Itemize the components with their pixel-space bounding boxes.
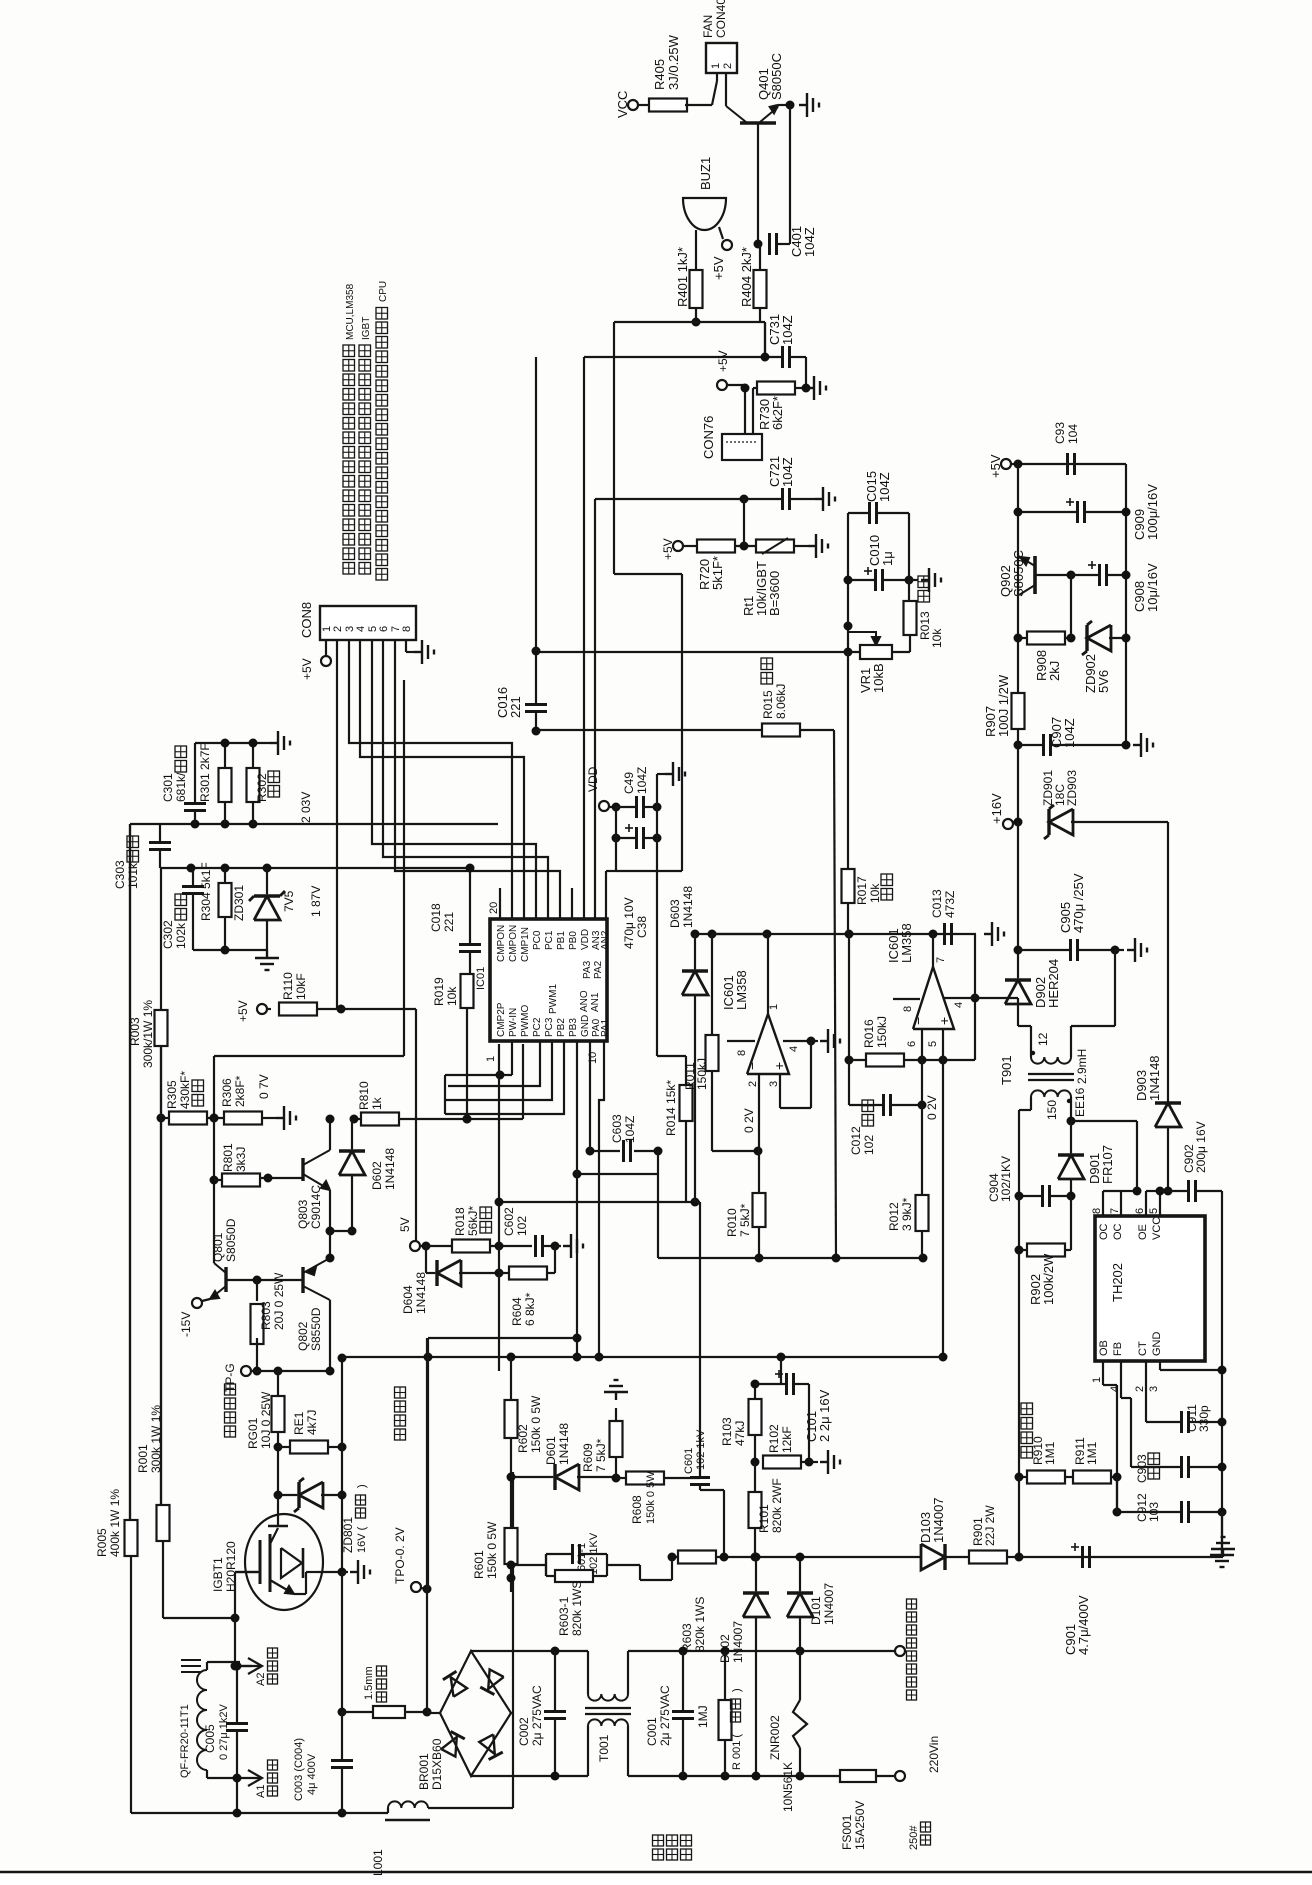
thermistor Rt1 xyxy=(756,540,794,553)
resistor R720 xyxy=(697,540,735,553)
resistor R910 xyxy=(1027,1471,1065,1484)
CON8 pin3 wire xyxy=(349,640,512,919)
capacitor C901 xyxy=(1081,1546,1084,1568)
wire C905 right to winding xyxy=(1114,950,1116,1026)
inductor L001 xyxy=(388,1801,428,1808)
svg-text:100k/2W: 100k/2W xyxy=(1041,1253,1056,1305)
wire DC rail y1557 xyxy=(672,1556,921,1558)
note CJK close to supply xyxy=(225,1426,236,1437)
resistor R003 xyxy=(155,1010,168,1046)
svg-text:PA2: PA2 xyxy=(593,960,604,979)
svg-text:BUZ1: BUZ1 xyxy=(698,157,713,190)
terminal AC top xyxy=(895,1646,905,1656)
svg-text:ZD801: ZD801 xyxy=(341,1517,355,1553)
capacitor C101 xyxy=(785,1373,788,1395)
wire R720 to Rt1 xyxy=(735,545,756,547)
wire y1151 row C603 xyxy=(590,1150,620,1152)
svg-text:7 5kJ*: 7 5kJ* xyxy=(738,1203,752,1237)
wire x848 drop xyxy=(847,513,849,652)
svg-text:1N4148: 1N4148 xyxy=(681,886,695,928)
wire C016 top feed xyxy=(535,357,537,651)
svg-text:D102: D102 xyxy=(718,1634,732,1663)
svg-text:RG01: RG01 xyxy=(246,1417,260,1449)
svg-text:PC1: PC1 xyxy=(544,930,555,950)
svg-text:+: + xyxy=(936,1017,952,1025)
capacitor C912 xyxy=(1180,1501,1183,1523)
note CJK compatible terminal xyxy=(907,1690,917,1700)
wire D603 column x695 to C601 col xyxy=(695,1201,700,1203)
wire rail y824 (2.03V) xyxy=(130,823,498,825)
svg-text:R602: R602 xyxy=(516,1424,530,1453)
ground at C49 xyxy=(656,774,658,807)
svg-text:Q802: Q802 xyxy=(296,1321,310,1351)
svg-text:T901: T901 xyxy=(999,1055,1014,1085)
svg-text:150kJ: 150kJ xyxy=(875,1016,889,1048)
wire y1258 row xyxy=(658,1257,923,1259)
svg-text:5: 5 xyxy=(927,1041,939,1047)
svg-text:R603: R603 xyxy=(680,1623,694,1652)
wire C005 column xyxy=(236,1666,238,1723)
resistor R301 xyxy=(219,768,232,802)
ground DC rail right xyxy=(1211,1537,1235,1557)
TH202 pin1 OB xyxy=(1102,1361,1104,1385)
wire AC rail top y1651 xyxy=(471,1650,588,1652)
svg-text:1MJ: 1MJ xyxy=(696,1705,710,1728)
svg-text:-15V: -15V xyxy=(179,1312,193,1337)
svg-text:200μ 16V: 200μ 16V xyxy=(1194,1121,1208,1173)
wire Q902 base to C908 node xyxy=(1035,574,1071,576)
svg-text:C013: C013 xyxy=(930,889,944,918)
wire pin1 row y1075 xyxy=(445,1074,512,1076)
svg-text:R015: R015 xyxy=(761,690,775,719)
svg-text:100J 1/2W: 100J 1/2W xyxy=(996,674,1011,737)
note CJK parallel routing xyxy=(395,1429,406,1440)
capacitor C907 xyxy=(1042,734,1045,756)
wire coil top to A2 xyxy=(206,1662,208,1670)
resistor R305 xyxy=(169,1112,207,1125)
wire opamp1 pin2 column xyxy=(758,1074,760,1193)
capacitor C603 xyxy=(622,1140,625,1162)
terminal 5V at R018 xyxy=(410,1241,420,1251)
svg-text:1N4148: 1N4148 xyxy=(414,1272,428,1314)
svg-text:1: 1 xyxy=(485,1056,497,1062)
wire C016 column xyxy=(535,652,537,704)
ground at R306 xyxy=(276,1106,296,1130)
resistor R405 xyxy=(649,99,687,112)
capacitor C38 470u xyxy=(635,827,638,849)
svg-text:FB: FB xyxy=(1112,1342,1124,1356)
svg-text:7: 7 xyxy=(935,957,947,963)
svg-text:R405: R405 xyxy=(652,59,667,90)
svg-text:2kJ: 2kJ xyxy=(1047,661,1062,681)
fuse FS001 xyxy=(840,1770,876,1782)
bridge diode 1 xyxy=(451,1677,467,1697)
wire column x499 (pin1) xyxy=(498,1044,500,1371)
wire C015 loop xyxy=(848,512,869,514)
svg-text:7V5: 7V5 xyxy=(282,890,296,912)
wire node y322 xyxy=(614,321,765,323)
ground at C905 xyxy=(1115,949,1124,951)
wire R404 to C731 node xyxy=(764,322,766,357)
wire Q803 emitter to D602 anode xyxy=(330,1230,352,1232)
wire x834 long drop xyxy=(834,730,836,1258)
wire ZD901 to right rail xyxy=(1071,821,1168,823)
wire PA1 column xyxy=(599,1041,604,1357)
svg-text:R012: R012 xyxy=(887,1202,901,1231)
wire TP-G rail xyxy=(257,1370,330,1372)
svg-text:C301: C301 xyxy=(161,773,175,802)
resistor R019 xyxy=(461,974,474,1008)
svg-text:CON8: CON8 xyxy=(299,602,314,638)
wire secondary left drop xyxy=(1030,1097,1032,1110)
svg-text:R810: R810 xyxy=(357,1081,371,1110)
power +5V at buzzer xyxy=(719,227,723,239)
svg-text:C002: C002 xyxy=(517,1717,531,1746)
wire x781 to C101 xyxy=(780,1357,782,1384)
svg-text:R014 15k*: R014 15k* xyxy=(664,1080,678,1136)
wire node to TH202 pin7 xyxy=(1071,1120,1137,1122)
wire collector node to coil A2 xyxy=(235,1665,252,1667)
svg-text:D602: D602 xyxy=(370,1161,384,1190)
resistor 1MJ xyxy=(719,1700,732,1740)
svg-text:R401 1kJ*: R401 1kJ* xyxy=(675,247,690,307)
wire opamp1 pin8 stub xyxy=(727,1040,755,1042)
svg-text:+5V: +5V xyxy=(716,350,730,372)
ground at R730 xyxy=(806,376,826,400)
svg-text:470μ 10V: 470μ 10V xyxy=(622,897,636,949)
resistor R014 xyxy=(680,1085,693,1121)
TH202 pin4 FB xyxy=(1120,1361,1122,1398)
svg-text:1: 1 xyxy=(768,1004,780,1010)
svg-text:GND: GND xyxy=(1151,1332,1163,1357)
svg-text:10J 0 25W: 10J 0 25W xyxy=(259,1391,273,1449)
svg-text:R803: R803 xyxy=(259,1301,273,1330)
svg-text:5V6: 5V6 xyxy=(1096,670,1111,693)
wire R011 bottom to pin2 column xyxy=(712,1150,758,1152)
svg-text:10kB: 10kB xyxy=(871,663,886,693)
svg-text:R304 5k1F: R304 5k1F xyxy=(199,862,213,921)
ground at C010 xyxy=(909,579,918,581)
svg-text:+5V: +5V xyxy=(711,256,726,280)
svg-text:1N4007: 1N4007 xyxy=(931,1497,946,1543)
wire R911 to pin1 node xyxy=(1116,1477,1118,1512)
svg-text:OE: OE xyxy=(1137,1224,1149,1240)
svg-text:20: 20 xyxy=(488,902,500,914)
wire x909 drop xyxy=(908,513,910,601)
wire VCC to R405 xyxy=(638,104,651,106)
svg-text:250#: 250# xyxy=(908,1825,920,1850)
wire opamp1 pin3 xyxy=(779,1074,781,1108)
svg-text:−: − xyxy=(744,1062,760,1070)
svg-text:3J/0.25W: 3J/0.25W xyxy=(666,34,681,90)
bridge diode 4 xyxy=(479,1734,495,1754)
wire C010 loop xyxy=(848,579,875,581)
svg-text:20J 0 25W: 20J 0 25W xyxy=(272,1272,286,1330)
op-amp IC601b xyxy=(913,967,954,1029)
svg-text:R018: R018 xyxy=(453,1207,467,1236)
resistor R110 xyxy=(279,1003,317,1016)
svg-text:1N4148: 1N4148 xyxy=(557,1423,571,1465)
svg-text:56kJ*: 56kJ* xyxy=(466,1206,480,1236)
resistor R013 xyxy=(904,601,917,635)
wire bridge left arm xyxy=(427,1712,440,1714)
svg-text:102: 102 xyxy=(515,1216,529,1236)
resistor R017 xyxy=(842,869,855,903)
svg-text:PA1: PA1 xyxy=(600,1018,611,1037)
svg-text:VDD: VDD xyxy=(580,929,591,950)
svg-text:TPO-0. 2V: TPO-0. 2V xyxy=(393,1527,407,1584)
IC IC01 MCU xyxy=(490,919,607,1041)
svg-text:102 1kV: 102 1kV xyxy=(695,1429,707,1470)
svg-text:6: 6 xyxy=(906,1041,918,1047)
wire x1019 down to DC rail xyxy=(1018,1477,1020,1557)
resistor R010 xyxy=(753,1193,766,1227)
wire PB3 column xyxy=(576,1041,578,1357)
capacitor C301 xyxy=(184,802,206,805)
wire left drop x614 xyxy=(613,322,615,574)
svg-text:CMPON: CMPON xyxy=(508,925,519,962)
capacitor C49 xyxy=(635,796,638,818)
svg-text:C602: C602 xyxy=(502,1207,516,1236)
svg-text:R608: R608 xyxy=(630,1495,644,1524)
wire y1338 row xyxy=(428,1337,576,1339)
svg-text:+5V: +5V xyxy=(236,1000,250,1022)
svg-text:R306: R306 xyxy=(220,1078,234,1107)
svg-text:R016: R016 xyxy=(862,1019,876,1048)
wire x428 column xyxy=(427,1338,429,1589)
svg-text:PWMO: PWMO xyxy=(520,1005,531,1037)
terminal A2 arrow xyxy=(248,1658,262,1674)
wire DC rail to C901 xyxy=(1019,1556,1223,1558)
svg-text:R305: R305 xyxy=(165,1080,179,1109)
wire R405 to FAN connector xyxy=(685,104,712,106)
resistor R603 xyxy=(678,1551,716,1564)
wire bridge bottom to rail xyxy=(471,1775,555,1777)
svg-text:221: 221 xyxy=(508,696,523,718)
wire R013 to VR1 xyxy=(909,635,911,652)
wire Q802 base link xyxy=(256,1280,258,1301)
wire AC rail bottom y1776 xyxy=(555,1775,588,1777)
terminal TPO-0.2V xyxy=(411,1582,421,1592)
svg-text:PW-IN: PW-IN xyxy=(508,1008,519,1037)
svg-text:4: 4 xyxy=(355,626,367,632)
svg-text:): ) xyxy=(356,1484,368,1488)
svg-text:R801: R801 xyxy=(221,1143,235,1172)
svg-text:820k 1WS: 820k 1WS xyxy=(693,1597,707,1652)
wire R907 bottom xyxy=(1017,729,1019,822)
svg-text:+: + xyxy=(771,1062,787,1070)
capacitor C908 xyxy=(1098,564,1101,586)
svg-text:8: 8 xyxy=(401,626,413,632)
wire R014 bottom xyxy=(685,1121,687,1202)
resistor R801 xyxy=(222,1174,260,1187)
note CJK per power xyxy=(653,1849,664,1860)
transformer T001 core xyxy=(585,1707,631,1709)
capacitor C001 xyxy=(672,1710,694,1713)
diode D102 xyxy=(743,1593,769,1617)
wire opamp2 pin5 xyxy=(942,1029,944,1060)
svg-text:T001: T001 xyxy=(597,1734,611,1762)
svg-text:CMPON: CMPON xyxy=(496,925,507,962)
wire opamp1 pin4 ground xyxy=(783,1040,811,1042)
wire coil bottom to A1 xyxy=(206,1770,208,1778)
wire CON76 pins up xyxy=(744,385,746,434)
svg-text:820k 1WS: 820k 1WS xyxy=(570,1581,584,1636)
svg-text:6: 6 xyxy=(1134,1208,1146,1214)
svg-text:470μ /25V: 470μ /25V xyxy=(1071,873,1086,933)
resistor R011 xyxy=(706,1035,719,1071)
svg-text:C003 (C004): C003 (C004) xyxy=(293,1738,305,1801)
svg-text:7: 7 xyxy=(1109,1208,1121,1214)
svg-text:R101: R101 xyxy=(757,1504,771,1533)
svg-text:2: 2 xyxy=(722,63,734,69)
resistor R609 xyxy=(610,1421,623,1457)
wire RG01 to gate xyxy=(277,1432,279,1495)
wire pin5 column x943 down to rail xyxy=(942,1060,944,1357)
diode D103 xyxy=(921,1544,945,1570)
svg-text:PC2: PC2 xyxy=(532,1017,543,1037)
resistor R810 xyxy=(361,1113,399,1126)
svg-text:1.5mm: 1.5mm xyxy=(363,1666,375,1700)
shunt 1.5mm resistor xyxy=(373,1706,405,1718)
svg-text:OC: OC xyxy=(1112,1223,1124,1240)
svg-text:CMP2P: CMP2P xyxy=(496,1002,507,1037)
resistor R102 xyxy=(763,1456,801,1469)
svg-text:8.06kJ: 8.06kJ xyxy=(774,684,788,719)
ground at C907 rail xyxy=(1133,733,1153,757)
svg-text:3: 3 xyxy=(1148,1386,1160,1392)
capacitor C015 xyxy=(868,502,871,524)
svg-text:+16V: +16V xyxy=(989,793,1004,824)
svg-text:2 03V: 2 03V xyxy=(299,792,313,823)
svg-text:C302: C302 xyxy=(161,920,175,949)
wire +5V left rail x1018 xyxy=(1017,464,1019,594)
svg-text:1μ: 1μ xyxy=(880,551,895,566)
resistor R302 xyxy=(247,768,260,802)
zener ZD801 xyxy=(299,1482,323,1508)
svg-text:1: 1 xyxy=(710,63,722,69)
wire C601-1/R603-1 loop xyxy=(546,1553,572,1555)
svg-text:C012: C012 xyxy=(849,1126,863,1155)
CON8 pin2 wire to R110 row xyxy=(336,640,338,1009)
resistor R401 xyxy=(690,270,703,308)
svg-text:300k 1W 1%: 300k 1W 1% xyxy=(149,1405,163,1473)
svg-text:FR107: FR107 xyxy=(1100,1145,1115,1184)
ground at C721 xyxy=(815,487,835,511)
wire rail y824 left drop x130 xyxy=(129,824,131,1521)
svg-text:1N4148: 1N4148 xyxy=(383,1148,397,1190)
svg-text:VDD: VDD xyxy=(586,766,600,792)
svg-text:2 2μ 16V: 2 2μ 16V xyxy=(817,1389,832,1442)
TH202 pin6 xyxy=(1145,1191,1147,1216)
capacitor C911 xyxy=(1180,1411,1183,1433)
capacitor C003 C004 xyxy=(331,1759,353,1762)
svg-text:150k 0 5W: 150k 0 5W xyxy=(529,1395,543,1453)
svg-text:R302: R302 xyxy=(255,773,269,802)
capacitor C013 xyxy=(943,923,946,945)
svg-text:VCC: VCC xyxy=(1151,1217,1163,1240)
svg-text:PWM1: PWM1 xyxy=(548,984,559,1014)
potentiometer VR1 xyxy=(860,645,892,659)
svg-text:+5V: +5V xyxy=(300,658,314,680)
svg-text:RE1: RE1 xyxy=(292,1411,306,1435)
wire bottom rail left xyxy=(131,1812,388,1814)
wire rail y950 with ground xyxy=(193,949,267,951)
svg-text:100μ/16V: 100μ/16V xyxy=(1145,484,1160,540)
wire bus drop x595 xyxy=(594,499,596,919)
svg-text:IGBT: IGBT xyxy=(361,317,372,340)
svg-text:473Z: 473Z xyxy=(943,891,957,918)
svg-text:7 5kJ*: 7 5kJ* xyxy=(594,1438,608,1472)
resistor RG01 xyxy=(272,1396,285,1432)
wire Q801 collector to R305 node column xyxy=(213,1118,215,1263)
resistor R604 xyxy=(509,1267,547,1280)
wire opamp1 output xyxy=(767,934,769,1014)
bridge diode 2 xyxy=(488,1669,504,1689)
svg-text:0 27μ 1k2V: 0 27μ 1k2V xyxy=(218,1703,230,1760)
TH202 pin3 GND xyxy=(1159,1361,1161,1370)
wire R015 row y730 xyxy=(536,729,764,731)
svg-text:D604: D604 xyxy=(401,1285,415,1314)
svg-text:R404 2kJ*: R404 2kJ* xyxy=(739,247,754,307)
wire x445 nest xyxy=(444,1075,446,1114)
power VDD terminal xyxy=(599,801,609,811)
svg-text:10μ/16V: 10μ/16V xyxy=(1145,563,1160,612)
wire opamp2 pin4 stub xyxy=(943,997,975,999)
wire collector rail xyxy=(1017,594,1019,695)
diode D901 xyxy=(1058,1155,1084,1179)
resistor R603-1 xyxy=(555,1570,593,1582)
capacitor C905 xyxy=(1069,939,1072,961)
svg-text:R 001 (: R 001 ( xyxy=(731,1734,743,1770)
svg-text:102/1KV: 102/1KV xyxy=(999,1156,1013,1202)
resistor R016 xyxy=(866,1054,904,1067)
wire pin5 rail to ground link xyxy=(943,1059,975,1061)
svg-text:R604: R604 xyxy=(510,1297,524,1326)
ground at C602 xyxy=(555,1245,561,1247)
wire rail y1557 xyxy=(668,1553,677,1562)
svg-text:0 2V: 0 2V xyxy=(925,1095,939,1120)
svg-text:D603: D603 xyxy=(668,899,682,928)
svg-text:LM358: LM358 xyxy=(899,923,914,963)
svg-text:8: 8 xyxy=(736,1050,748,1056)
wire opamp2 pin6 xyxy=(921,1029,923,1060)
svg-text:HER204: HER204 xyxy=(1046,959,1061,1008)
diode D902 xyxy=(1005,980,1031,1004)
capacitor C016 xyxy=(525,703,547,706)
svg-text:C49: C49 xyxy=(622,772,636,794)
svg-text:PC0: PC0 xyxy=(532,930,543,950)
ground at R609 top xyxy=(615,1408,617,1421)
TH202 pin2 CT xyxy=(1145,1361,1147,1422)
wire PA0 column xyxy=(589,1041,591,1151)
svg-text:300k/1W 1%: 300k/1W 1% xyxy=(141,1000,155,1068)
diode D101 xyxy=(787,1593,813,1617)
wire pin6 column down xyxy=(921,1060,923,1195)
wire rail y1357 xyxy=(342,1356,943,1358)
wire C731 right to R730 gnd xyxy=(805,357,807,388)
svg-text:R609: R609 xyxy=(581,1443,595,1472)
svg-text:4: 4 xyxy=(953,1002,965,1008)
wire R810 row xyxy=(354,1118,361,1120)
svg-text:5k1F*: 5k1F* xyxy=(710,556,725,590)
wire D902 anode to winding xyxy=(1017,1004,1019,1026)
capacitor C303 xyxy=(149,841,171,844)
wire y1056 to R305 node xyxy=(213,1056,215,1118)
wire opamp2 output xyxy=(932,934,934,967)
diode D903 xyxy=(1155,1103,1181,1127)
wire R803 to TP-G rail xyxy=(256,1338,258,1371)
